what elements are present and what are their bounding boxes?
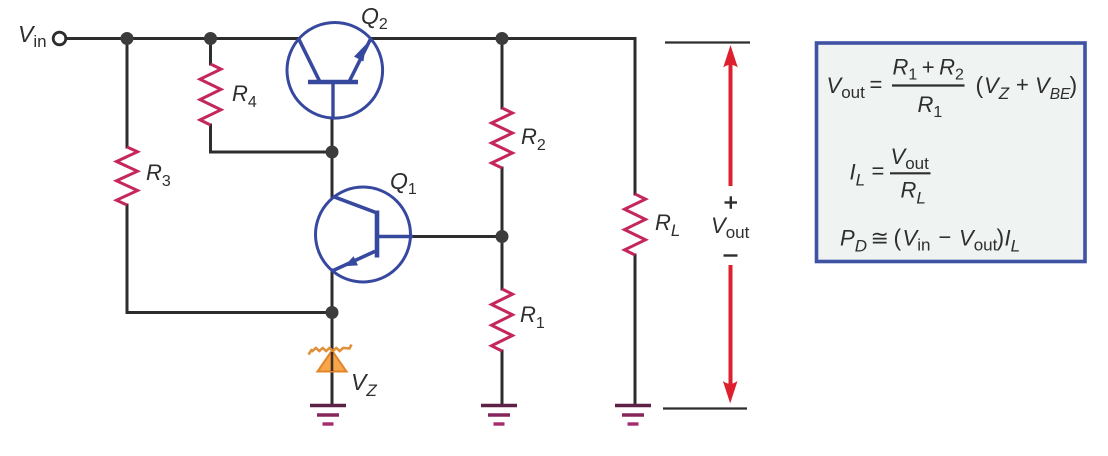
svg-text:=: = <box>872 159 885 184</box>
svg-text:−: − <box>939 225 952 250</box>
svg-text:Q1: Q1 <box>390 168 417 198</box>
svg-text:(: ( <box>976 72 984 98</box>
svg-text:R3: R3 <box>146 160 171 190</box>
svg-text:R1: R1 <box>520 302 545 332</box>
svg-text:): ) <box>1070 72 1078 98</box>
svg-text:R1+R2: R1+R2 <box>893 55 965 84</box>
svg-text:RL: RL <box>655 210 680 240</box>
svg-text:VZ: VZ <box>351 369 377 400</box>
svg-text:Vin: Vin <box>18 21 47 51</box>
svg-text:Q2: Q2 <box>361 3 388 33</box>
svg-text:≅: ≅ <box>871 226 889 251</box>
svg-text:=: = <box>870 72 883 97</box>
svg-text:Vout: Vout <box>711 213 750 242</box>
svg-text:R2: R2 <box>521 124 546 154</box>
svg-text:R4: R4 <box>232 81 257 111</box>
svg-text:): ) <box>997 225 1005 251</box>
svg-text:(: ( <box>894 225 902 251</box>
svg-text:+: + <box>1016 72 1029 97</box>
